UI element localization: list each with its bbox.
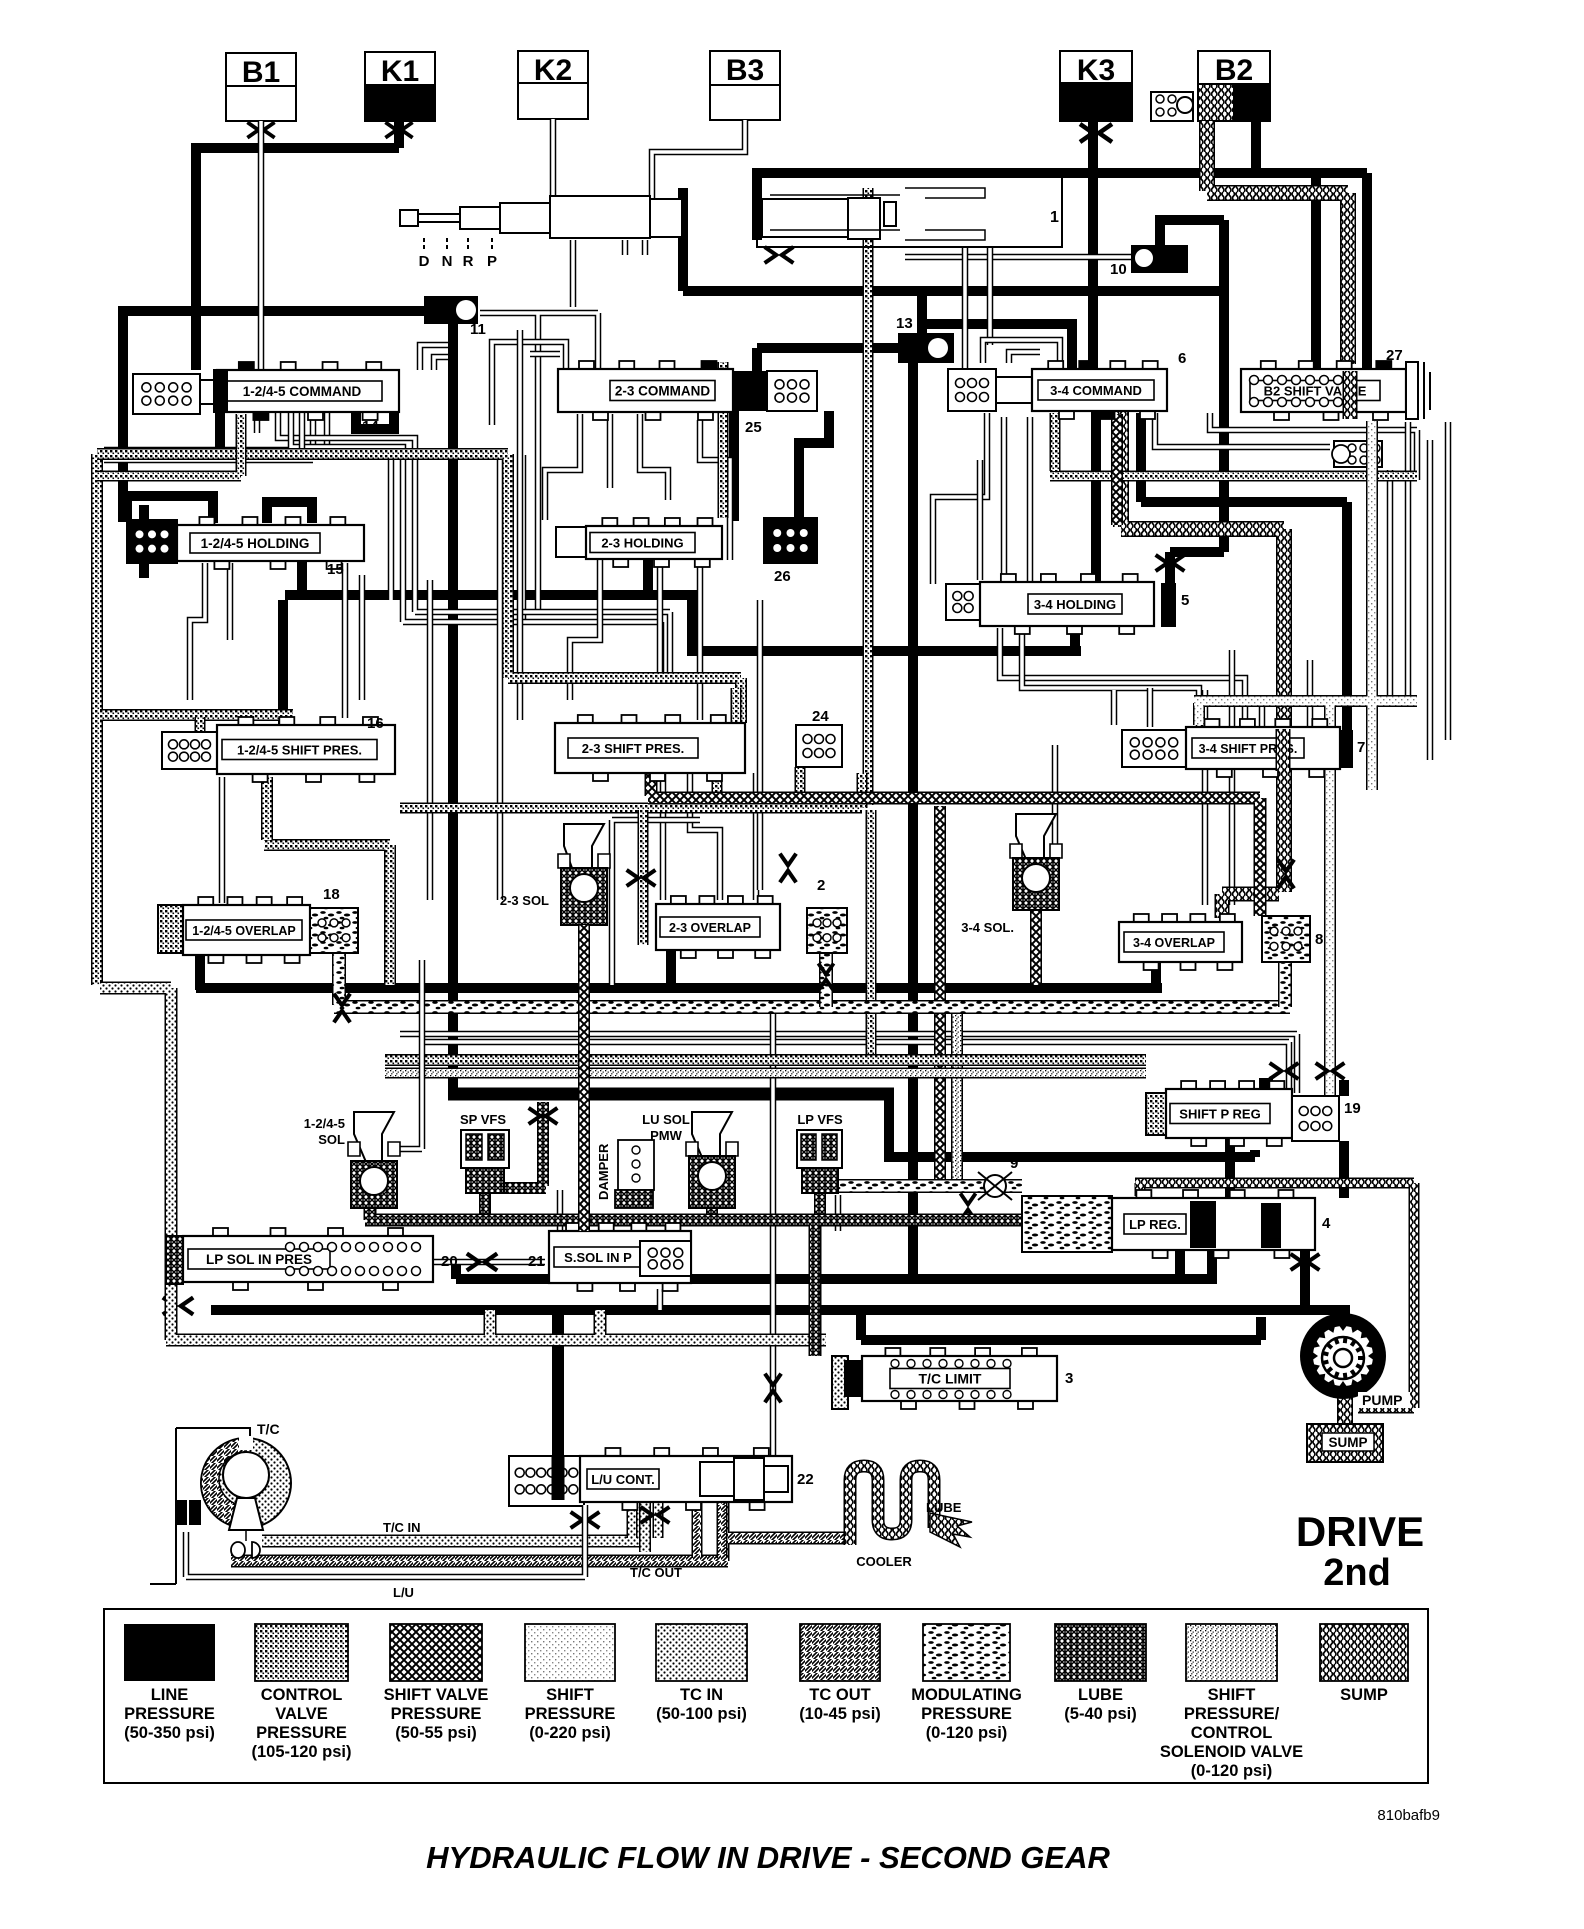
svg-text:810bafb9: 810bafb9	[1377, 1807, 1440, 1824]
svg-text:B3: B3	[726, 54, 764, 87]
nest left of valve25	[492, 342, 566, 425]
svg-text:2-3 OVERLAP: 2-3 OVERLAP	[669, 921, 751, 935]
D N R P ticks	[423, 238, 425, 252]
nested above valve6	[983, 340, 1060, 363]
wire conn25 down	[734, 411, 829, 521]
control rail y1060	[385, 1054, 1146, 1066]
svg-text:TC OUT: TC OUT	[809, 1686, 870, 1704]
wire 2-3 overlap drop	[666, 950, 676, 990]
valve 22: L/U CONT.	[509, 1456, 584, 1506]
svg-text:(50-100 psi): (50-100 psi)	[656, 1705, 747, 1723]
control rail y476	[97, 414, 241, 476]
svg-text:SHIFT: SHIFT	[546, 1686, 594, 1704]
svg-text:2nd: 2nd	[1323, 1552, 1391, 1594]
misc bottom thin	[657, 1289, 664, 1310]
svg-text:K3: K3	[1077, 54, 1115, 87]
svg-text:11: 11	[470, 321, 486, 338]
svg-text:6: 6	[1178, 350, 1186, 367]
wire wide-n above valve15	[127, 496, 213, 523]
control line from 1-2/4-5 sol	[396, 960, 422, 1149]
wire y990 rail	[196, 983, 1162, 993]
svg-text:LP REG.: LP REG.	[1129, 1217, 1181, 1232]
wire top-left horizontal	[191, 143, 399, 153]
valve 6: 3-4 COMMAND	[948, 369, 996, 411]
arrow below 18	[334, 994, 350, 1023]
arrow below B1	[247, 122, 274, 137]
arrows at sump corner	[1278, 860, 1294, 889]
arrow on 2-3 overlap feed	[627, 870, 656, 886]
clutch B1	[226, 53, 296, 86]
svg-text:16: 16	[367, 715, 384, 732]
wire y1279 horizontal	[456, 1262, 1212, 1279]
dotted rail y476 right	[1050, 413, 1417, 476]
valve 5: 3-4 HOLDING	[946, 584, 980, 620]
svg-text:PRESSURE: PRESSURE	[256, 1724, 347, 1742]
svg-text:19: 19	[1344, 1100, 1361, 1117]
svg-text:HYDRAULIC FLOW IN DRIVE - SECO: HYDRAULIC FLOW IN DRIVE - SECOND GEAR	[426, 1840, 1110, 1875]
wire long vertical x913	[908, 363, 918, 1157]
lube arrow	[930, 1513, 972, 1547]
wire y1096 horizontal	[448, 1088, 894, 1101]
wire lp reg bottoms	[1180, 1250, 1212, 1284]
svg-text:3-4 COMMAND: 3-4 COMMAND	[1050, 383, 1142, 398]
svg-text:1-2/4-5 SHIFT PRES.: 1-2/4-5 SHIFT PRES.	[237, 743, 362, 758]
svg-text:27: 27	[1386, 347, 1403, 364]
solenoid drops to rail	[485, 1193, 820, 1220]
svg-text:25: 25	[745, 419, 762, 436]
valve 4: LP REG.	[1022, 1196, 1112, 1252]
wire n-cup below valve14	[356, 412, 394, 429]
svg-text:T/C LIMIT: T/C LIMIT	[919, 1371, 982, 1387]
wire K3 drop	[1088, 121, 1098, 369]
svg-text:PRESSURE: PRESSURE	[921, 1705, 1012, 1723]
svg-text:18: 18	[323, 886, 340, 903]
arrow left of y1310	[163, 1297, 193, 1314]
wire thin below valves 6-27	[1210, 413, 1417, 480]
svg-text:K1: K1	[381, 55, 419, 88]
mid long verticals	[427, 580, 434, 900]
wire x123 vertical	[118, 306, 128, 522]
left border lower	[100, 988, 826, 1340]
svg-text:15: 15	[327, 561, 344, 578]
svg-text:R: R	[463, 253, 474, 270]
wire x1224 long vertical	[1170, 220, 1224, 584]
lube solenoid rail y1220	[365, 1205, 1022, 1356]
wire valve15 stub	[297, 556, 307, 595]
dotted x868 lower	[866, 810, 877, 1062]
svg-text:PRESSURE: PRESSURE	[525, 1705, 616, 1723]
wire 3-4cmd top feeds	[927, 319, 1072, 369]
svg-text:D: D	[419, 253, 430, 270]
svg-text:3: 3	[1065, 1370, 1073, 1387]
bundle below valve5	[1000, 628, 1245, 725]
svg-text:7: 7	[1357, 739, 1365, 756]
svg-text:1: 1	[1050, 209, 1059, 226]
svg-text:PUMP: PUMP	[1362, 1392, 1402, 1408]
wire y1340 horizontal	[861, 1310, 1261, 1340]
arrow on SP VFS drop	[529, 1108, 558, 1124]
sump line valve27 to right side	[1121, 412, 1284, 892]
svg-text:LU SOL: LU SOL	[642, 1112, 690, 1127]
sump wrap at 3-4 overlap	[1222, 894, 1279, 918]
svg-text:8: 8	[1315, 931, 1323, 948]
valve 7: 3-4 SHIFT PRES.	[1122, 730, 1186, 767]
svg-text:21: 21	[528, 1253, 545, 1270]
svg-text:L/U: L/U	[393, 1585, 414, 1600]
long dotted vertical x868	[863, 188, 874, 805]
arrow below K1	[385, 122, 412, 137]
wire shiftpreg right drop	[1339, 1080, 1349, 1198]
modulating stubs	[826, 953, 1285, 1007]
B2 quick connect	[1151, 92, 1193, 121]
svg-text:24: 24	[812, 708, 829, 725]
solenoid 1-2/4-5 SOL	[354, 1112, 394, 1162]
torque converter	[150, 1428, 250, 1584]
black port square above valve 19	[1259, 1078, 1273, 1092]
valve 25: 2-3 COMMAND	[579, 361, 594, 370]
svg-text:MODULATING: MODULATING	[911, 1686, 1022, 1704]
svg-text:1-2/4-5 OVERLAP: 1-2/4-5 OVERLAP	[192, 924, 296, 938]
arrow above spool	[765, 247, 794, 263]
thin pair right of 2-3 sol	[612, 820, 700, 985]
svg-text:DRIVE: DRIVE	[1296, 1508, 1424, 1555]
valve 3: T/C LIMIT	[832, 1356, 848, 1409]
svg-text:CONTROL: CONTROL	[1191, 1724, 1273, 1742]
svg-text:SHIFT: SHIFT	[1208, 1686, 1256, 1704]
sump border around pump	[1135, 1183, 1414, 1408]
svg-text:13: 13	[896, 315, 913, 332]
svg-text:(0-220 psi): (0-220 psi)	[529, 1724, 611, 1742]
wire lp sol left cap stub	[215, 1231, 225, 1258]
hatch vertical x1117 valve27	[1111, 414, 1123, 525]
svg-text:B2: B2	[1215, 54, 1253, 87]
svg-text:PMW: PMW	[650, 1128, 683, 1143]
cooler	[850, 1466, 934, 1545]
wire B3 drop-left	[652, 120, 745, 200]
wire junction10 loop	[1160, 220, 1224, 245]
wire x889 elbow down	[884, 1094, 894, 1157]
svg-text:L/U CONT.: L/U CONT.	[591, 1472, 655, 1487]
arrow on x1305	[1291, 1254, 1320, 1270]
svg-text:CONTROL: CONTROL	[261, 1686, 343, 1704]
svg-text:(50-350 psi): (50-350 psi)	[124, 1724, 215, 1742]
hollow feed to junction 10	[905, 254, 1131, 261]
svg-text:3-4 OVERLAP: 3-4 OVERLAP	[1133, 936, 1215, 950]
svg-text:26: 26	[774, 568, 791, 585]
clutch K2	[518, 51, 588, 83]
bundle below valve24	[660, 773, 667, 900]
svg-text:2-3 SOL: 2-3 SOL	[500, 893, 549, 908]
wire y311 horizontal	[118, 306, 440, 316]
svg-text:SOL: SOL	[318, 1132, 345, 1147]
pump	[1300, 1313, 1386, 1399]
valve 15: 1-2/4-5 HOLDING	[127, 520, 177, 563]
control 16-18 path	[264, 777, 390, 985]
legend swatches	[124, 1624, 215, 1681]
clutch B2	[1198, 51, 1270, 84]
wire K2 drop	[550, 119, 557, 205]
svg-text:3-4 HOLDING: 3-4 HOLDING	[1034, 597, 1116, 612]
svg-text:2-3 SHIFT PRES.: 2-3 SHIFT PRES.	[582, 741, 685, 756]
svg-text:(105-120 psi): (105-120 psi)	[252, 1743, 352, 1761]
wire valve1 to conn6	[962, 247, 969, 369]
junction 10	[1131, 245, 1188, 273]
control line y715	[100, 709, 293, 721]
legend box	[104, 1609, 1428, 1783]
arrow V near 2-3 overlap	[780, 854, 796, 883]
svg-text:2-3 COMMAND: 2-3 COMMAND	[615, 384, 711, 399]
arrow below 2-3 overlap spring	[818, 963, 833, 990]
svg-text:SHIFT P REG: SHIFT P REG	[1179, 1107, 1260, 1122]
junction 13	[917, 291, 927, 333]
wire x773 down to valve22	[770, 1000, 777, 1456]
svg-text:(0-120 psi): (0-120 psi)	[1191, 1762, 1273, 1780]
check valve 9	[984, 1175, 1006, 1197]
wire feed valve16	[278, 600, 288, 731]
L/U thin line	[186, 1505, 585, 1577]
textured drop to SP VFS	[505, 1102, 546, 1188]
sv below 3-4 sol	[1030, 910, 1042, 985]
svg-text:4: 4	[1322, 1215, 1331, 1232]
wire x1316 drop to valve27	[1311, 173, 1321, 369]
arrows into valve19	[1270, 1063, 1299, 1079]
wire K1 drop	[394, 121, 404, 148]
wire x1305 lp reg right drop	[1300, 1250, 1310, 1305]
svg-text:T/C IN: T/C IN	[383, 1520, 421, 1535]
valve 21: S.SOL IN P	[566, 1223, 581, 1232]
svg-text:14: 14	[362, 418, 379, 435]
wire 13 to valve25 conn	[757, 348, 898, 371]
wire pump feed	[1340, 1305, 1350, 1317]
thin from junction 11	[480, 313, 598, 612]
svg-text:5: 5	[1181, 592, 1189, 609]
control rail y454	[97, 454, 741, 723]
svg-text:2-3 HOLDING: 2-3 HOLDING	[601, 536, 683, 551]
svg-text:10: 10	[1110, 261, 1127, 278]
svg-text:COOLER: COOLER	[856, 1554, 912, 1569]
modulating to LP REG	[838, 1179, 1022, 1193]
svg-text:VALVE: VALVE	[275, 1705, 328, 1723]
wire B2 drop	[1251, 121, 1261, 173]
shift dotted right column	[1194, 421, 1417, 1135]
valve 27: B2 SHIFT VALVE	[1261, 361, 1276, 370]
svg-text:SP VFS: SP VFS	[460, 1112, 506, 1127]
svg-text:1-2/4-5: 1-2/4-5	[304, 1116, 345, 1131]
wire valve6 mid drop	[1141, 413, 1347, 731]
control drop to 2-3 overlap	[638, 810, 649, 945]
wire shiftpreg bottom	[1230, 1138, 1255, 1198]
valve 18: 1-2/4-5 OVERLAP	[158, 905, 183, 953]
bundle below valve26	[570, 560, 600, 700]
valve 22 port textures	[632, 1500, 658, 1538]
long rails y1034/y1042	[400, 1034, 1297, 1093]
svg-text:22: 22	[797, 1471, 814, 1488]
wire B1 drop	[258, 121, 265, 372]
svg-text:1-2/4-5 HOLDING: 1-2/4-5 HOLDING	[201, 536, 310, 551]
lu cont right hatch	[639, 1502, 651, 1552]
svg-text:9: 9	[1010, 1155, 1018, 1172]
quick connect below valve 27	[1334, 441, 1382, 467]
wire long vertical x453	[448, 324, 458, 1096]
wire n above valve15	[267, 502, 312, 523]
svg-text:PRESSURE: PRESSURE	[391, 1705, 482, 1723]
svg-text:PRESSURE/: PRESSURE/	[1184, 1705, 1280, 1723]
sump line from B2	[1207, 121, 1348, 364]
arrow under mod line	[960, 1193, 975, 1220]
bundle below valve14	[104, 413, 327, 450]
bundle valve15 to 16	[190, 563, 205, 700]
spc vertical x957	[951, 1012, 963, 1185]
svg-text:(5-40 psi): (5-40 psi)	[1064, 1705, 1136, 1723]
wire spool drops to 2-3 cmd	[570, 240, 577, 307]
wire y595 horizontal	[285, 595, 697, 651]
nested right of valve14	[420, 345, 448, 370]
arrow above 5 cap	[1156, 555, 1185, 571]
wire y651 horizontal	[687, 628, 1081, 651]
svg-text:B1: B1	[242, 56, 280, 89]
clutch K3	[1060, 51, 1132, 83]
nested rects below valve6	[933, 413, 987, 584]
wire top-right main horizontal y173	[752, 168, 1367, 178]
pCV rail y808	[400, 688, 862, 808]
valve 20: LP SOL IN PRES	[166, 1236, 183, 1284]
right side verticals	[1387, 470, 1394, 700]
wire 3-4 overlap feed	[1151, 960, 1161, 990]
svg-text:SUMP: SUMP	[1340, 1686, 1388, 1704]
svg-text:SHIFT VALVE: SHIFT VALVE	[384, 1686, 489, 1704]
valve 26: 2-3 HOLDING	[556, 527, 586, 557]
sump	[1307, 1424, 1383, 1462]
wire x1367 drop to valve27	[1362, 173, 1372, 369]
svg-text:TC IN: TC IN	[680, 1686, 723, 1704]
svg-text:(50-55 psi): (50-55 psi)	[395, 1724, 477, 1742]
valve 19: SHIFT P REG	[1146, 1093, 1166, 1135]
svg-text:PRESSURE: PRESSURE	[124, 1705, 215, 1723]
control vert valve25	[718, 362, 729, 518]
wire overlap18 drop	[195, 955, 205, 990]
shift-valve rail y798	[648, 773, 1260, 916]
wire x683 vertical	[678, 188, 688, 291]
spc rail y1073	[385, 1068, 1146, 1079]
sv below 2-3 sol	[578, 925, 590, 1231]
valve 8: 3-4 OVERLAP	[1134, 914, 1149, 923]
svg-text:LINE: LINE	[151, 1686, 189, 1704]
bundle below valve16	[219, 777, 226, 903]
arrow below K3	[1080, 124, 1112, 142]
svg-text:1-2/4-5 COMMAND: 1-2/4-5 COMMAND	[243, 384, 362, 399]
svg-text:T/C: T/C	[257, 1421, 280, 1437]
valve 16: 1-2/4-5 SHIFT PRES.	[162, 732, 217, 769]
modulating main rail	[334, 953, 1290, 1007]
valve 1 box	[757, 175, 1062, 247]
wire x913 continue to y1279	[908, 1157, 918, 1284]
tc out line	[231, 1502, 845, 1561]
valve 14: 1-2/4-5 COMMAND	[133, 374, 200, 414]
junction 11	[424, 296, 478, 324]
clutch K1	[365, 52, 435, 85]
svg-text:N: N	[442, 253, 453, 270]
wire x196 vertical to valve14	[191, 143, 201, 370]
clutch B3	[710, 51, 780, 85]
svg-text:SOLENOID VALVE: SOLENOID VALVE	[1160, 1743, 1303, 1761]
solenoid 3-4 SOL	[1016, 814, 1056, 864]
valve 2: 2-3 OVERLAP	[671, 896, 686, 905]
svg-text:K2: K2	[534, 54, 572, 87]
sump below pump	[1337, 1397, 1353, 1424]
svg-text:P: P	[487, 253, 497, 270]
svg-text:2: 2	[817, 877, 825, 894]
svg-text:LP VFS: LP VFS	[797, 1112, 843, 1127]
tc in line	[262, 1502, 640, 1541]
svg-text:LUBE: LUBE	[1078, 1686, 1123, 1704]
wire valve14 cap stub	[215, 412, 225, 448]
svg-text:20: 20	[441, 1253, 458, 1270]
svg-text:SUMP: SUMP	[1328, 1435, 1367, 1450]
control stub conn16	[195, 717, 206, 762]
arrow on x773	[765, 1374, 781, 1403]
svg-text:DAMPER: DAMPER	[596, 1143, 611, 1200]
svg-text:LP SOL IN PRES: LP SOL IN PRES	[206, 1252, 312, 1267]
wire L/U CONT feed x558	[552, 1305, 564, 1492]
svg-text:(10-45 psi): (10-45 psi)	[799, 1705, 881, 1723]
svg-text:(0-120 psi): (0-120 psi)	[926, 1724, 1008, 1742]
svg-text:T/C OUT: T/C OUT	[630, 1565, 682, 1580]
conn15 stubs	[139, 505, 149, 578]
left border control line	[91, 454, 103, 985]
manual valve spool	[400, 210, 418, 226]
wire 3-4cmd bottom x1096	[1091, 411, 1101, 582]
sv vertical x940	[934, 806, 946, 1180]
valve 24: 2-3 SHIFT PRES.	[578, 715, 593, 724]
wire 2-3 holding bottom stub	[643, 560, 653, 595]
bundle below valve25	[545, 414, 580, 520]
svg-text:3-4 SOL.: 3-4 SOL.	[961, 920, 1014, 935]
wire manual valve feed x757	[752, 168, 762, 240]
wire y1157 horizontal	[884, 1152, 1255, 1162]
wire y291 horizontal	[683, 286, 1224, 296]
solenoid 2-3 SOL	[564, 824, 604, 879]
svg-text:S.SOL IN P: S.SOL IN P	[564, 1250, 632, 1265]
wire y1310 long horizontal	[211, 1305, 1345, 1315]
